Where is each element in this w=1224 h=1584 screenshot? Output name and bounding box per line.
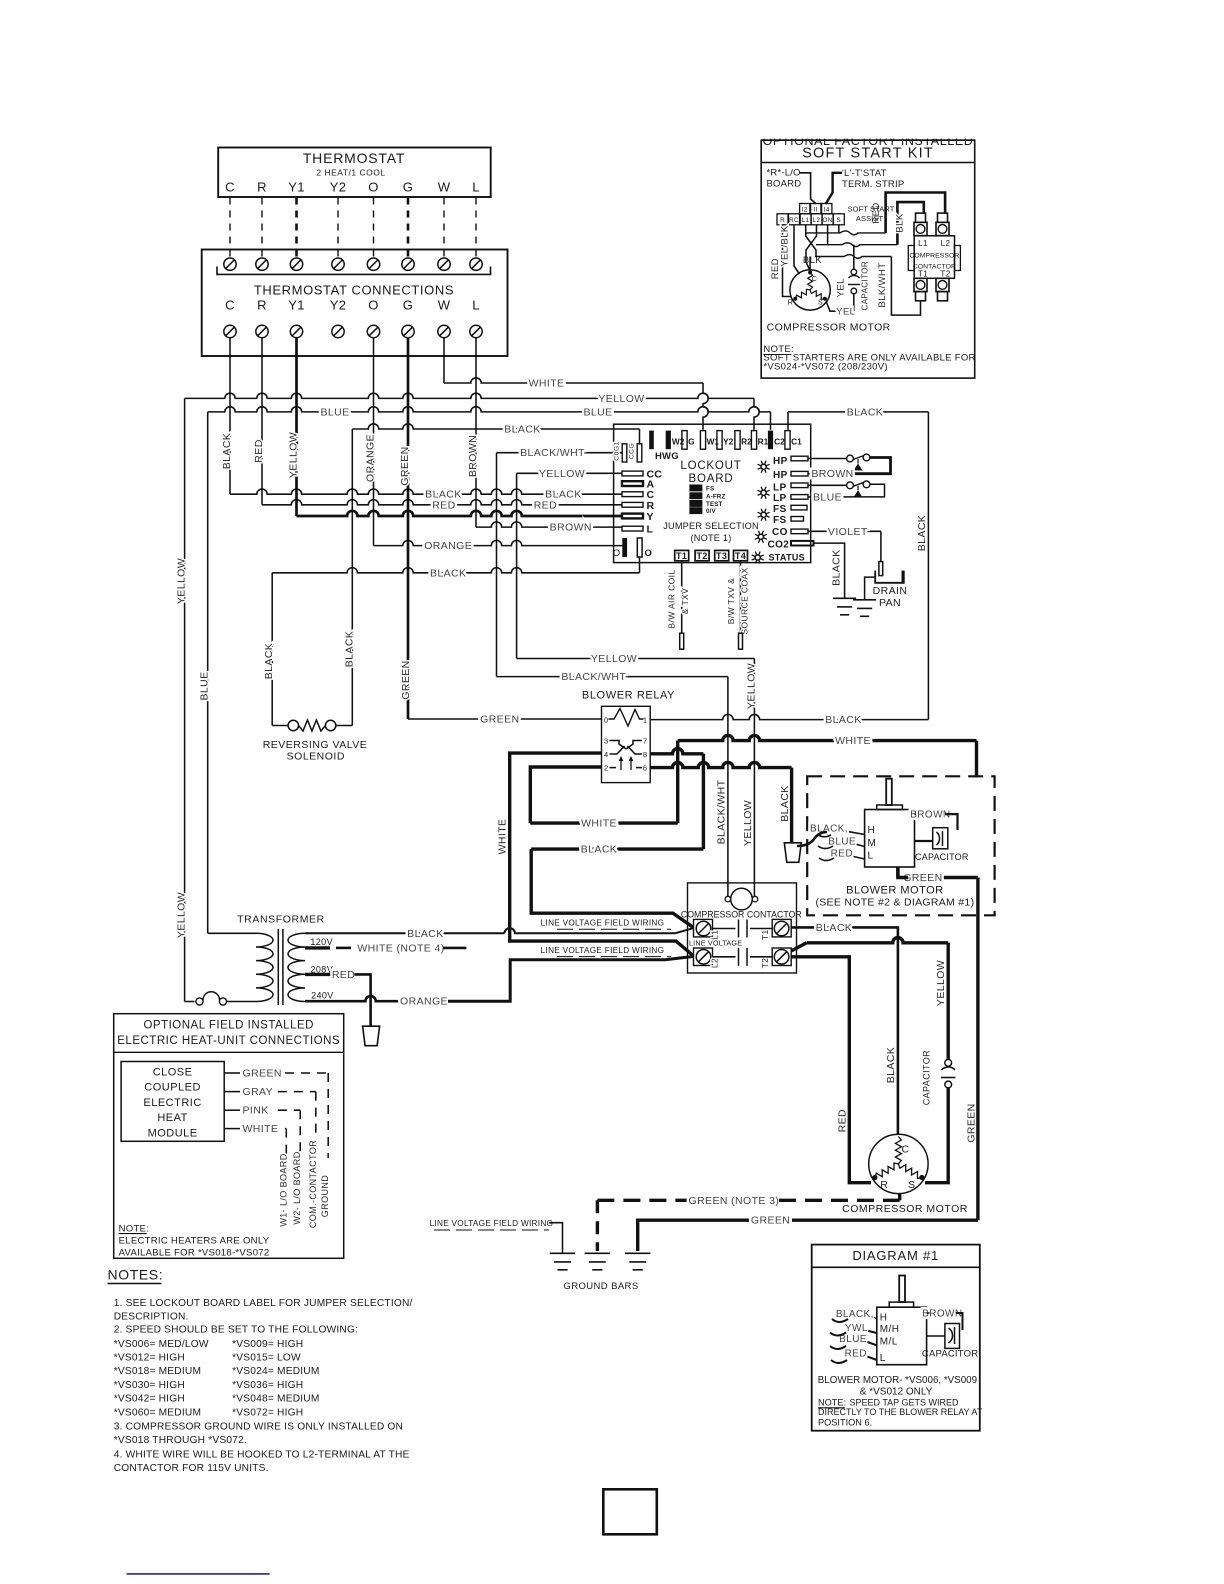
svg-text:CAPACITOR: CAPACITOR — [915, 852, 969, 862]
blower motor mount — [877, 805, 903, 810]
kit terminal L1 — [800, 214, 811, 225]
kit wire L2 down — [806, 225, 817, 270]
kit terminal I2 — [800, 204, 810, 214]
svg-text:GREEN: GREEN — [400, 660, 412, 699]
T1 sensor terminal — [680, 633, 684, 649]
wire YELLOW row to CC — [517, 472, 622, 474]
svg-text:BLACK,: BLACK, — [836, 1309, 874, 1320]
transformer primary top wire — [208, 932, 256, 934]
svg-text:*VS060= MEDIUM: *VS060= MEDIUM — [114, 1407, 201, 1418]
transformer primary coil — [256, 933, 273, 1001]
svg-text:I4: I4 — [824, 206, 830, 213]
wire W white vertical — [443, 338, 445, 383]
svg-text:O: O — [368, 298, 378, 313]
wire WHITE row — [444, 378, 703, 383]
diagram1 loose wire 3 — [830, 1346, 846, 1349]
connections top screw O — [367, 258, 379, 270]
svg-text:BLOWER MOTOR- *VS006, *VS009: BLOWER MOTOR- *VS006, *VS009 — [818, 1375, 977, 1386]
kit terminal S — [833, 214, 844, 225]
relay arrow a — [620, 759, 622, 771]
svg-text:R: R — [257, 298, 267, 313]
diagram1 box — [812, 1245, 980, 1431]
svg-text:BLUE: BLUE — [583, 406, 612, 418]
wire O orange vertical — [373, 338, 375, 546]
dashed wire thermostat Y1 — [295, 198, 298, 260]
svg-text:H: H — [868, 825, 876, 836]
wire YELLOW long vertical — [184, 398, 186, 1001]
svg-text:YELLOW: YELLOW — [176, 892, 188, 938]
lockout top terminal C2 — [768, 431, 773, 450]
lockout CCG terminal rect — [637, 444, 642, 462]
wire violet vertical drop — [880, 531, 882, 561]
svg-text:BLK/WHT: BLK/WHT — [877, 262, 888, 307]
svg-text:C2: C2 — [774, 437, 785, 447]
wire CO2 black — [814, 543, 845, 598]
dashed wire thermostat O — [373, 198, 375, 260]
svg-text:*VS018= MEDIUM: *VS018= MEDIUM — [114, 1366, 201, 1377]
svg-text:BLOWER RELAY: BLOWER RELAY — [582, 690, 675, 702]
svg-text:W: W — [438, 298, 451, 313]
wire G green vertical (thick) — [407, 338, 410, 719]
svg-text:L: L — [868, 850, 874, 861]
svg-text:DESCRIPTION.: DESCRIPTION. — [114, 1311, 189, 1322]
contactor L2 screw box — [694, 948, 713, 966]
ground drain pan — [853, 599, 876, 601]
svg-text:LINE VOLTAGE FIELD WIRING: LINE VOLTAGE FIELD WIRING — [541, 919, 665, 928]
svg-text:L1: L1 — [918, 239, 928, 248]
HP switch — [847, 455, 854, 462]
lockout HWG terminal rect — [649, 431, 654, 450]
compressor motor dots — [872, 1175, 877, 1180]
svg-text:L: L — [880, 1353, 886, 1364]
svg-text:BLACK: BLACK — [816, 922, 852, 934]
contactor L1 screw box — [694, 919, 713, 937]
wire BLACK right side long vertical — [927, 412, 929, 720]
svg-text:GREEN: GREEN — [903, 872, 942, 884]
svg-text:*VS009= HIGH: *VS009= HIGH — [232, 1339, 303, 1350]
thermostat connections box — [202, 250, 508, 357]
svg-text:GROUND: GROUND — [320, 1175, 330, 1217]
svg-text:ORANGE: ORANGE — [365, 434, 377, 482]
transformer primary bottom wire — [227, 1001, 257, 1003]
svg-text:BOARD: BOARD — [689, 473, 734, 485]
svg-text:120V: 120V — [310, 937, 333, 947]
svg-text:LINE VOLTAGE FIELD WIRING: LINE VOLTAGE FIELD WIRING — [430, 1219, 554, 1228]
soft start kit box — [761, 140, 975, 378]
diagram1 loose wire 1 — [832, 1319, 848, 1322]
svg-text:ORANGE: ORANGE — [400, 996, 448, 1008]
wire ORANGE row to O terminal — [374, 540, 623, 545]
drain pan symbol — [875, 571, 904, 583]
svg-text:FS: FS — [706, 486, 714, 493]
kit winding S — [810, 290, 825, 299]
close coupled module box — [121, 1062, 224, 1142]
svg-text:*VS036= HIGH: *VS036= HIGH — [232, 1380, 303, 1391]
wire white down to blower box — [975, 741, 978, 778]
svg-text:T2: T2 — [940, 270, 950, 279]
kit BLK/WHT wire — [891, 257, 920, 316]
wire BLACK/WHT row to COG1 — [497, 452, 623, 454]
wire BLACK/WHT vertical from row — [496, 453, 498, 677]
lockout top terminal W2 — [666, 431, 671, 450]
wire heat GRAY dashed — [278, 1091, 316, 1093]
svg-text:'L'-T'STAT: 'L'-T'STAT — [842, 168, 887, 179]
svg-text:H: H — [880, 1313, 888, 1324]
kit bundle row 1 — [806, 231, 886, 235]
wire black tap to L1 chevron — [505, 928, 676, 933]
dashed wire thermostat G — [407, 198, 410, 260]
wire heat GREEN lead — [224, 1072, 240, 1074]
svg-text:LOCKOUT: LOCKOUT — [680, 460, 741, 472]
thermostat box — [218, 148, 491, 198]
svg-text:BROWN: BROWN — [467, 435, 479, 477]
svg-text:C0G1: C0G1 — [614, 441, 621, 460]
connections top screw C — [224, 258, 236, 270]
wire relay4 white — [510, 753, 602, 937]
blower lead tick L — [854, 857, 865, 860]
lockout left terminal CC rect — [622, 471, 643, 476]
kit winding C — [808, 273, 813, 290]
diagram1 tick MH — [868, 1331, 877, 1333]
wire BLACK row to CCG — [352, 424, 639, 429]
blower motor dashed box — [807, 776, 994, 915]
svg-text:CAPACITOR: CAPACITOR — [921, 1050, 931, 1105]
lockout left terminal C rect — [622, 492, 643, 497]
wire heat GRAY dashed vertical — [315, 1092, 317, 1158]
svg-text:TRANSFORMER: TRANSFORMER — [237, 914, 325, 926]
svg-text:YELLOW: YELLOW — [591, 653, 637, 665]
lockout top terminal W1 — [700, 431, 705, 450]
svg-text:GREEN (NOTE 3): GREEN (NOTE 3) — [689, 1195, 780, 1207]
svg-text:*VS030= HIGH: *VS030= HIGH — [114, 1380, 185, 1391]
svg-text:S: S — [818, 300, 823, 307]
svg-text:SOFT START: SOFT START — [848, 205, 895, 214]
wire GREEN blower — [940, 876, 978, 879]
connections bottom screw L — [470, 325, 482, 337]
wire YELLOW row 659 h — [517, 658, 755, 660]
kit contactor bottom screw x942.5 — [936, 278, 949, 291]
wire YELLOW vertical to contactor — [753, 659, 755, 897]
wire WHITE row 823 — [530, 821, 677, 824]
svg-text:WHITE: WHITE — [243, 1123, 279, 1135]
svg-text:ELECTRIC: ELECTRIC — [143, 1097, 201, 1109]
svg-text:BROWN: BROWN — [811, 468, 853, 480]
contactor T2 screw box — [772, 948, 791, 966]
wire YELLOW row 659 — [516, 473, 518, 658]
svg-text:GREEN: GREEN — [399, 446, 411, 485]
wire transformer 240 black tap — [305, 932, 505, 934]
svg-text:R2: R2 — [741, 437, 752, 447]
wire red tap to plug — [355, 974, 371, 1026]
dashed wire thermostat Y2 — [337, 198, 339, 260]
diagram1 tick H — [874, 1317, 877, 1319]
svg-text:RC: RC — [789, 217, 799, 224]
lockout left terminal A rect — [622, 481, 643, 486]
lockout CO terminal — [791, 529, 808, 534]
wire R red vertical — [261, 338, 263, 505]
lockout O1 terminal rect — [622, 538, 627, 557]
svg-text:RED: RED — [836, 1109, 848, 1132]
wire L brown vertical — [475, 338, 477, 527]
wire BLUE row — [208, 407, 771, 412]
lockout top terminal R1 — [751, 431, 756, 450]
svg-text:BLK: BLK — [895, 213, 906, 232]
kit terminal R — [777, 214, 788, 225]
svg-text:2 HEAT/1 COOL: 2 HEAT/1 COOL — [316, 168, 385, 178]
svg-text:3. COMPRESSOR GROUND WIRE IS O: 3. COMPRESSOR GROUND WIRE IS ONLY INSTAL… — [114, 1422, 403, 1433]
svg-text:G: G — [403, 298, 413, 313]
wire white note4 dash a — [336, 947, 351, 950]
svg-text:DIAGRAM #1: DIAGRAM #1 — [852, 1248, 939, 1263]
svg-text:4: 4 — [604, 750, 609, 759]
wire relay8 black — [649, 753, 651, 755]
diagram1 loose wire 2 — [830, 1333, 846, 1336]
bottom blue line — [127, 1573, 270, 1575]
svg-text:T1: T1 — [760, 929, 770, 940]
wire BLACK row to C terminal — [230, 489, 622, 494]
svg-text:RED: RED — [332, 969, 355, 981]
LED HP — [766, 468, 770, 470]
svg-text:HP: HP — [773, 456, 788, 467]
svg-text:WHITE: WHITE — [497, 819, 509, 855]
lockout FS2 terminal — [791, 517, 804, 522]
svg-text:BLACK: BLACK — [343, 631, 355, 667]
compressor motor circle — [869, 1134, 928, 1193]
svg-text:BLACK: BLACK — [779, 785, 791, 821]
svg-text:T4: T4 — [735, 551, 746, 561]
kit wire capacitor top — [853, 245, 855, 269]
kit wire RC down — [794, 225, 800, 274]
svg-text:YELLOW: YELLOW — [288, 432, 300, 478]
svg-text:B/W TXV &: B/W TXV & — [726, 578, 736, 624]
jumper block TEST — [689, 500, 702, 507]
svg-text:THERMOSTAT CONNECTIONS: THERMOSTAT CONNECTIONS — [254, 283, 454, 298]
svg-text:C: C — [225, 298, 235, 313]
svg-text:*VS024= MEDIUM: *VS024= MEDIUM — [232, 1366, 319, 1377]
svg-text:COUPLED: COUPLED — [144, 1082, 201, 1094]
compressor winding C — [895, 1137, 901, 1164]
bottom empty box — [603, 1489, 657, 1534]
svg-text:STATUS: STATUS — [769, 553, 805, 563]
connections bottom screw R — [256, 325, 268, 337]
svg-text:YEL/BLK: YEL/BLK — [780, 225, 791, 267]
svg-text:CONTACTOR FOR 115V UNITS.: CONTACTOR FOR 115V UNITS. — [114, 1463, 269, 1474]
svg-text:GREEN: GREEN — [480, 714, 519, 726]
wire heat GREEN dashed vertical — [327, 1073, 329, 1158]
wire heat WHITE dashed vertical — [285, 1129, 287, 1158]
transformer core — [277, 929, 279, 1005]
wire YELLOW row — [185, 393, 754, 398]
jumper block 0/V — [689, 507, 702, 514]
wire T1 black to compressor — [791, 927, 898, 1134]
diagram1 wire motor to cap — [927, 1335, 945, 1337]
wire BLACK row to O2 terminal — [272, 568, 639, 573]
svg-text:2. SPEED SHOULD BE SET TO THE: 2. SPEED SHOULD BE SET TO THE FOLLOWING: — [114, 1325, 358, 1336]
lockout top terminal R2 — [735, 431, 740, 450]
svg-text:YELLOW: YELLOW — [745, 663, 757, 709]
svg-text:8: 8 — [643, 750, 648, 759]
kit wire ON down — [827, 225, 829, 245]
wire GREEN note3 dashed vertical — [596, 1200, 599, 1251]
svg-text:7: 7 — [643, 737, 648, 746]
blower motor body — [865, 810, 915, 868]
kit contactor RED wire — [886, 193, 946, 233]
svg-text:DRAIN: DRAIN — [873, 585, 908, 597]
wire GREEN row to relay coil — [408, 718, 602, 720]
wire GREEN long vertical — [976, 878, 979, 1221]
kit contactor side tab right — [955, 246, 961, 271]
wire heat GRAY lead — [224, 1091, 240, 1093]
wire GREEN solid bottom — [638, 1220, 749, 1251]
wire R1 yellow vertical drop — [754, 398, 759, 429]
svg-text:BLK: BLK — [803, 255, 822, 266]
connections top screw Y1 — [290, 258, 302, 270]
svg-text:COM.-CONTACTOR: COM.-CONTACTOR — [308, 1140, 318, 1228]
svg-text:Y2: Y2 — [330, 298, 347, 313]
ground bar 1 — [550, 1252, 576, 1254]
L-TSTAT leader — [826, 173, 842, 204]
wire capacitor to S — [925, 1088, 948, 1183]
diagram1 tick L — [867, 1357, 876, 1360]
kit contactor top screw x920.5 — [916, 213, 926, 222]
wire blower green down — [896, 867, 899, 878]
svg-text:BLUE: BLUE — [320, 406, 349, 418]
kit terminal L2 — [811, 214, 822, 225]
transformer secondary coil — [288, 933, 305, 1001]
svg-text:*R*-L/O: *R*-L/O — [767, 168, 801, 179]
fuse — [185, 1001, 195, 1003]
electric heat title separator — [114, 1051, 344, 1053]
funnel black blower tap — [784, 843, 801, 863]
wire BLACK row relay1 to right — [650, 714, 928, 719]
svg-text:CAPACITOR: CAPACITOR — [922, 1349, 978, 1360]
svg-text:NOTE:: NOTE: — [119, 1223, 150, 1234]
svg-text:0/V: 0/V — [706, 508, 716, 515]
kit terminal I4 — [822, 204, 832, 214]
wire WHITE row 741 — [678, 735, 977, 740]
blower lead tick H — [849, 832, 865, 835]
lockout left terminal L rect — [622, 526, 643, 531]
kit bundle row 3 — [815, 255, 891, 259]
soft start title separator — [761, 162, 975, 164]
svg-text:NOTES:: NOTES: — [108, 1266, 164, 1282]
wire LP2 to BLUE — [808, 496, 815, 498]
svg-text:BLACK: BLACK — [504, 424, 540, 436]
wire heat WHITE lead — [224, 1128, 240, 1130]
jumper block FS — [689, 485, 702, 492]
svg-text:II: II — [814, 206, 818, 213]
diagram1 title separator — [812, 1266, 980, 1268]
svg-text:O: O — [613, 548, 621, 559]
wire Y1 yellow vertical (thick) — [295, 338, 298, 516]
wire heat GREEN dashed — [285, 1072, 328, 1074]
svg-text:YELLOW: YELLOW — [742, 800, 754, 846]
wire HP2 to BROWN — [808, 473, 817, 475]
svg-text:C1: C1 — [791, 437, 802, 447]
blower loose wire 2 — [818, 846, 833, 849]
svg-text:REVERSING VALVE: REVERSING VALVE — [263, 739, 368, 751]
connections bottom screw G — [402, 325, 414, 337]
svg-text:YWL: YWL — [845, 1323, 868, 1334]
lockout top terminal C1 — [785, 431, 790, 450]
svg-text:3: 3 — [604, 737, 609, 746]
svg-text:WHITE: WHITE — [529, 378, 565, 390]
wire to ground bar 1 — [549, 1223, 563, 1254]
svg-text:I2: I2 — [802, 206, 808, 213]
wire LP to switch — [808, 484, 847, 486]
svg-text:L2: L2 — [941, 239, 951, 248]
blower capacitor box — [933, 828, 948, 849]
wire motor to capacitor — [915, 840, 933, 842]
connections bottom screw Y2 — [332, 325, 344, 337]
svg-text:SOLENOID: SOLENOID — [287, 751, 345, 763]
svg-text:1: 1 — [643, 716, 648, 725]
connections bottom screw W — [438, 325, 450, 337]
kit wire cap to S — [826, 294, 854, 311]
T1 sensor wire — [681, 561, 683, 633]
blower lead tick M — [857, 844, 865, 846]
contactor T1 screw box — [772, 919, 791, 937]
relay coil — [609, 709, 644, 727]
connections bottom screw O — [367, 325, 379, 337]
kit winding R — [795, 289, 810, 298]
svg-text:BLACK,: BLACK, — [810, 824, 848, 835]
connections bottom screw C — [224, 325, 236, 337]
svg-text:COMPRESSOR: COMPRESSOR — [909, 253, 959, 260]
wire heat PINK lead — [224, 1109, 240, 1111]
svg-text:T1: T1 — [918, 270, 928, 279]
svg-text:*VS012= HIGH: *VS012= HIGH — [114, 1353, 185, 1364]
blower loose wire 1 — [817, 834, 831, 837]
svg-text:BLACK: BLACK — [263, 643, 275, 679]
wire relay6 black — [650, 762, 791, 767]
svg-text:ELECTRIC HEAT-UNIT CONNECTIONS: ELECTRIC HEAT-UNIT CONNECTIONS — [117, 1035, 340, 1047]
wire HP to switch — [808, 458, 847, 460]
kit bundle row 2 — [816, 243, 897, 247]
wire C2 blue vertical drop — [770, 412, 772, 430]
svg-text:*VS048= MEDIUM: *VS048= MEDIUM — [232, 1394, 319, 1405]
svg-text:AVAILABLE FOR *VS018-*VS072: AVAILABLE FOR *VS018-*VS072 — [119, 1247, 270, 1258]
svg-text:JUMPER SELECTION: JUMPER SELECTION — [663, 521, 759, 531]
kit contactor BLK wire — [897, 202, 923, 245]
lockout O2 terminal rect — [637, 538, 642, 557]
svg-text:6: 6 — [643, 764, 648, 773]
electric heat box — [114, 1014, 344, 1259]
reversing valve solenoid — [272, 725, 288, 727]
svg-text:YEL: YEL — [835, 278, 846, 297]
kit terminal II — [811, 204, 821, 214]
wire 208V red tap — [305, 973, 333, 976]
wire HP switch loop — [851, 458, 891, 474]
compressor contactor box — [688, 883, 797, 973]
svg-text:L: L — [647, 524, 654, 536]
connections top screw R — [256, 258, 268, 270]
svg-text:TEST: TEST — [706, 501, 723, 508]
diagram1 motor shaft — [899, 1276, 905, 1303]
svg-text:ORANGE: ORANGE — [424, 540, 472, 552]
svg-text:*VS015= LOW: *VS015= LOW — [232, 1353, 301, 1364]
svg-text:L2: L2 — [813, 217, 821, 224]
kit compressor motor circle — [790, 270, 830, 310]
wire heat PINK dashed — [278, 1109, 300, 1111]
wire C1 black vertical drop — [787, 412, 789, 430]
wire O2 vertical to right O rect — [639, 557, 641, 573]
lockout LP2 terminal — [791, 495, 808, 500]
svg-text:O: O — [645, 548, 653, 559]
svg-text:M: M — [868, 838, 877, 849]
svg-text:GRAY: GRAY — [243, 1086, 274, 1098]
svg-text:DIRECTLY TO THE BLOWER RELAY A: DIRECTLY TO THE BLOWER RELAY AT — [818, 1407, 983, 1417]
